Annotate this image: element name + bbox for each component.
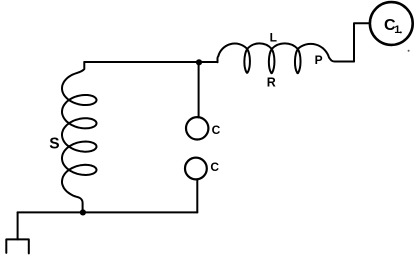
earth electrode <box>6 239 29 253</box>
svg-text:P: P <box>315 53 323 67</box>
svg-text:S: S <box>49 135 59 152</box>
spark ball C (bottom) <box>185 158 207 180</box>
detector C1 circle <box>370 2 413 45</box>
junction dot bottom rail <box>80 209 86 215</box>
svg-text:L: L <box>270 31 277 45</box>
wire: bottom horizontal rail <box>18 211 198 213</box>
svg-text:R: R <box>267 76 276 90</box>
inductor S <box>62 62 97 212</box>
junction dot top rail <box>196 59 202 65</box>
wire: bottom spark ball to bottom rail <box>196 179 198 212</box>
speck artifact 2 <box>408 50 410 52</box>
svg-text:C: C <box>210 160 219 174</box>
wire: junction to top spark ball <box>198 62 200 117</box>
svg-text:C1: C1 <box>384 17 400 36</box>
speck artifact <box>400 31 402 33</box>
wire: down-lead to earth <box>17 212 19 239</box>
spark ball C (top) <box>186 117 208 139</box>
wire: top horizontal rail <box>84 61 217 63</box>
wire: riser to detector C1 <box>354 23 370 61</box>
svg-text:C: C <box>212 123 221 137</box>
inductor L R P <box>218 43 355 73</box>
